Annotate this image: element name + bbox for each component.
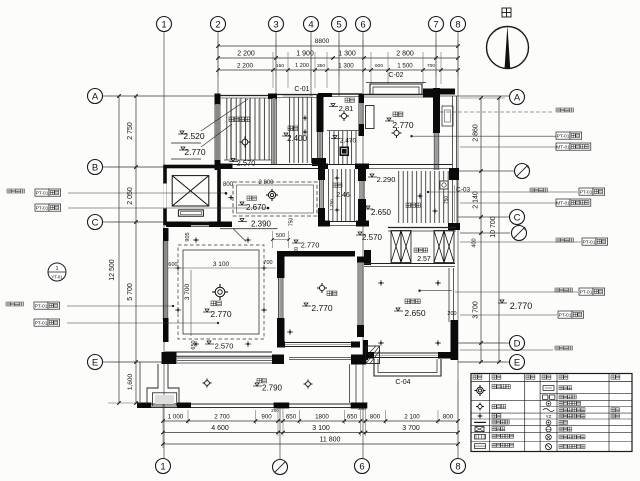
axis bubble 8 top [451,17,466,32]
pier bedroom/master at balcony [351,355,366,365]
svg-text:2.770: 2.770 [210,309,232,319]
grid line axis 5 [338,32,340,96]
svg-text:3 100: 3 100 [312,425,330,432]
wall closet bottom [364,263,455,265]
svg-text:905: 905 [185,232,191,241]
svg-text:8: 8 [455,461,460,472]
pantry appliance black box [340,147,350,157]
balcony left flue box [147,364,179,404]
svg-text:2: 2 [215,19,220,30]
svg-text:600: 600 [375,63,383,69]
label balcony bottom + 2.790 [257,379,261,383]
axis bubble 2 top [211,17,226,32]
elevation 2.650 hallway right [366,206,370,209]
svg-text:2.570: 2.570 [237,159,256,168]
right callout leader row1 [413,135,556,137]
left annotation tiny text row3 [6,302,10,306]
svg-text:1 500: 1 500 [397,63,413,70]
svg-text:PT-01: PT-01 [35,320,48,326]
axis bubble C right [510,210,525,225]
wall bedroom/master divider [357,257,359,325]
left callout leader row3 [67,305,173,307]
entry garden hatch [227,98,269,160]
right annotation dashed leader row0 [440,111,554,113]
svg-text:PT-01: PT-01 [35,303,48,309]
svg-text:2.770: 2.770 [301,241,320,250]
right annotation tiny text AC row8 [460,349,553,351]
svg-text:11 800: 11 800 [320,437,341,444]
legend row3 left symbol wall lamp [477,415,482,417]
right dimension extension lines [460,97,505,99]
wall study top [362,94,433,96]
top dimension extension lines [217,40,219,76]
balcony left slab edge [139,362,141,404]
svg-text:1 000: 1 000 [168,414,184,421]
axis bubble 3 top [269,17,284,32]
svg-text:2.670: 2.670 [246,203,267,212]
hatch area below small balcony [330,131,356,164]
svg-text:1: 1 [160,461,165,472]
left callout leader row4 [67,322,218,324]
legend table header rule [471,381,632,383]
right callout leader row2 [460,146,556,148]
grid line axis C' right [460,232,510,234]
svg-text:1,600: 1,600 [127,373,134,390]
bathroom hatch [399,171,449,223]
elevator door rect [178,210,203,216]
grid line axis B right [458,170,515,172]
top dimension line overall 8800 [218,45,458,47]
plus marks kitchen [302,117,307,119]
svg-text:1 300: 1 300 [338,63,354,70]
elevation 2.770 entry [181,147,185,150]
left callout leader row1 [68,192,226,194]
grid line axis A [103,95,218,97]
grid line axis 3 [275,32,277,100]
balcony C-04 bay frame [374,359,441,376]
svg-text:PT-01: PT-01 [583,239,596,245]
elevation 2.400 kitchen [284,133,288,136]
svg-text:2.400: 2.400 [287,134,308,143]
elevator shaft left door gap white [163,184,166,209]
wall closet top [388,227,456,229]
pier living/bedroom at balcony [272,355,284,365]
wall bedroom top (dining divider) [283,251,355,257]
svg-text:350: 350 [317,63,325,69]
svg-text:A: A [92,91,99,102]
svg-text:800: 800 [443,414,454,421]
svg-text:650: 650 [191,340,197,349]
wall study top-right corner black (axis 7) [433,88,440,133]
svg-text:12 500: 12 500 [109,259,116,281]
svg-text:PT-01: PT-01 [559,312,572,318]
label 2.290 hallway [370,174,374,177]
grid line axis 7 [435,32,437,96]
grid line axis E [103,361,165,363]
grid line axis 1 [163,32,165,458]
right annotation tiny text row3 + box [530,188,534,192]
wall bathroom bottom-right corner black [448,223,460,230]
svg-text:2.790: 2.790 [262,384,283,393]
svg-text:B: B [92,162,98,173]
bedroom ceiling light [319,285,324,290]
svg-text:2 860: 2 860 [473,124,480,142]
legend row6 left symbol AC return [475,435,486,440]
wall below entry-garden (axis B zone) [215,164,233,170]
hallway hatch [329,169,355,221]
svg-text:C-03: C-03 [456,187,470,194]
living room chandelier [215,287,225,297]
wall kitchen/balcony divider black [317,95,324,132]
right callout box MT-01 upper2 [556,143,570,150]
elevation 2.520 entry [180,131,184,134]
right callout box MT-01 row4 [460,202,556,204]
wall bottom living (axis E) [165,351,272,353]
svg-text:2 700: 2 700 [214,414,230,421]
label 2.470 pantry [333,136,337,139]
wall living-room left (axis 1) [163,228,169,241]
svg-text:MT-01: MT-01 [556,200,570,206]
elevation 2.770 dining-left [294,240,298,243]
axis bubble B right slashed [515,164,530,179]
axis bubble A right [510,90,525,105]
grid line axis D right [455,342,510,344]
bedroom balcony sliding door track [289,357,351,359]
svg-text:D: D [514,338,521,349]
grid line axis 2 [217,32,219,170]
axis bubble 4 top [304,17,319,32]
right annotation tiny text row5 + box [556,238,560,242]
wall bathroom top [369,164,452,166]
living entry door leaf diagonal [233,229,246,242]
svg-text:200: 200 [447,311,456,317]
plus marks bathroom [417,195,422,197]
svg-text:YZ: YZ [546,414,552,419]
wall entry-garden left (axis 2) [215,94,221,105]
wall balcony/study divider [359,94,365,103]
label bedroom + 2.770 [327,291,332,296]
svg-text:400: 400 [472,238,478,247]
svg-text:2.770: 2.770 [311,303,333,313]
svg-text:2 200: 2 200 [237,51,255,58]
study ceiling light [394,130,399,135]
svg-text:A: A [514,92,521,103]
right annotation tiny text row6 + box [555,288,559,292]
axis bubble E left [88,355,103,370]
svg-text:2.470: 2.470 [340,138,357,145]
bathroom fan symbol [440,181,448,189]
study leader dot [410,135,412,137]
wall bottom master window [366,352,374,359]
bottom dimension line row 3 [163,443,458,445]
legend right-half rows symbols and texts [543,386,554,391]
bottom dimension extension lines [162,400,164,448]
grid line axis 8 [457,32,459,458]
svg-text:800: 800 [370,414,381,421]
wall kitchen top with window C-01 [277,94,320,96]
right callout box PT-01 row7 [460,314,557,316]
svg-text:PT-01: PT-01 [580,189,593,195]
wall corner block axis3 top [268,94,277,100]
svg-text:3: 3 [273,19,278,30]
svg-text:3 700: 3 700 [184,283,191,300]
corner block axis1/E black [162,352,177,364]
svg-text:2.81: 2.81 [339,104,354,113]
corridor ceiling dashed cove [233,182,317,216]
label entry garden [229,117,234,122]
svg-text:600: 600 [168,262,177,268]
svg-text:2.520: 2.520 [183,131,205,141]
svg-text:1800: 1800 [315,414,329,421]
label bathroom [406,203,410,207]
svg-text:3 100: 3 100 [213,261,230,268]
left callout box PT-01 row2 [35,204,49,211]
wall study right window [433,133,435,170]
closet left wardrobe X-boxes [391,231,401,263]
wall hallway left side [318,169,325,180]
right dimension line inner [480,98,482,362]
elevator shaft outer wall [165,167,219,224]
svg-text:3 700: 3 700 [473,301,480,319]
svg-text:700: 700 [263,260,272,266]
AC platform rects upper right [442,106,453,126]
svg-text:2 800: 2 800 [258,180,274,186]
svg-text:2.570: 2.570 [362,233,383,242]
svg-text:8800: 8800 [315,38,330,45]
svg-text:C-01: C-01 [294,86,309,93]
wall small-balcony top [318,93,332,97]
label closet + 2.57 [414,248,418,252]
balcony bottom piers black [137,403,151,409]
svg-text:5 700: 5 700 [127,283,134,301]
svg-text:PT-01: PT-01 [36,190,49,196]
svg-text:1: 1 [55,266,58,272]
grid line axis 4 [310,32,312,96]
svg-text:2.650: 2.650 [404,308,426,318]
axis bubble B left [88,160,103,175]
right callout box PT-01 upper1 [556,132,570,139]
axis bubble 8 bottom [451,459,466,474]
svg-text:1 200: 1 200 [295,63,309,69]
svg-text:650: 650 [347,414,358,421]
axis bubble 6 top [356,17,371,32]
left dimension line outer 12500 [118,96,120,403]
axis bubble 1 bottom [156,459,171,474]
axis bubble 1 top [157,17,172,32]
svg-text:300: 300 [294,247,300,256]
north arrow compass [487,27,529,69]
wall entry-garden top [220,95,277,97]
label master bedroom + 2.650 [405,299,410,304]
axis bubble 5 top [332,17,347,32]
svg-text:2.46: 2.46 [336,192,350,199]
right dimension line outer 10700 [498,98,500,362]
plus mark right of elevator [228,197,233,199]
wall bathroom right window C-03 [452,180,454,226]
axis bubble E right [510,355,525,370]
svg-text:150: 150 [276,63,284,69]
axis bubble 4 bottom slashed [273,460,288,475]
svg-text:PT-01: PT-01 [580,289,593,295]
wall hallway top [318,164,328,170]
svg-text:650: 650 [286,414,297,421]
svg-text:E: E [514,357,520,368]
svg-text:2 140: 2 140 [473,191,480,209]
wall between entry and kitchen [271,98,273,164]
svg-text:5: 5 [336,19,341,30]
axis bubble 6 bottom [355,459,370,474]
corridor ceiling light [268,191,275,198]
svg-text:750: 750 [289,218,295,227]
svg-text:700: 700 [427,63,435,69]
grid line axis C right [458,216,510,218]
svg-text:2.770: 2.770 [392,120,414,130]
elevator car box with X [172,176,209,206]
label living room + 2.770 [211,301,216,306]
master SW corner block diagonal hatched [366,346,380,364]
svg-text:6: 6 [360,19,365,30]
legend row4 left symbol cove tube [474,421,486,423]
legend row2 left symbol ceiling light [478,404,482,408]
svg-text:2 100: 2 100 [404,414,420,421]
svg-text:YT-01: YT-01 [51,275,63,280]
svg-text:10 700: 10 700 [490,216,497,238]
svg-text:2 050: 2 050 [127,187,134,205]
grid line axis B [103,166,168,168]
legend table right-half row rules [540,393,632,395]
svg-text:900: 900 [261,414,272,421]
axis bubble C left [88,215,103,230]
wall corridor/dining right piece [364,250,371,265]
legend row7 left symbol AC supply [475,444,486,449]
master bedroom leader dot [418,290,420,292]
grid line axis 4' bottom [279,405,281,459]
closet right wardrobe X-boxes [434,231,444,263]
svg-text:MT-01: MT-01 [556,144,570,150]
elevation 2.570 entry bottom [231,159,235,162]
legend row5 left symbol exhaust [475,427,484,432]
svg-text:500: 500 [276,233,285,239]
legend table left-half row rules [471,399,540,401]
dim 500 between living and bedroom [272,231,274,248]
wall bathroom top-right corner black [449,168,459,180]
living room ceiling dashed cove [178,245,264,339]
label small balcony + 2.810 [345,98,349,102]
right annotation tiny text row0 [556,108,560,112]
label study + 2.770 [393,112,398,117]
svg-text:C-02: C-02 [388,72,403,79]
svg-text:PT-01: PT-01 [557,133,570,139]
left dimension extension lines [108,95,164,97]
bottom dimension line row 2 [163,432,458,434]
legend row1 left symbol chandelier [477,387,484,394]
right elevation 2.770 balcony side [500,300,504,303]
top dimension line row 2 [218,69,458,71]
corridor soffit edge line [220,228,278,230]
svg-text:750: 750 [444,196,450,205]
left callout leader row2 [68,207,268,209]
axis bubble A left [88,89,103,104]
label kitchen [288,126,293,131]
legend table vertical rules [489,374,491,452]
svg-text:2.770: 2.770 [184,147,206,157]
living balcony sliding door track [177,357,272,359]
wall outer right upper (axis 8) [452,96,454,170]
left callout box PT-01 row3 [34,302,48,309]
small balcony ceiling light [341,113,346,118]
axis bubble D right [510,336,525,351]
wall below elevator / living top [166,222,191,228]
entry leader arrows [201,99,248,131]
svg-text:2 200: 2 200 [237,63,254,70]
svg-text:3 700: 3 700 [402,425,420,432]
wall living/bedroom divider [277,251,285,278]
north arrow label Bei [502,8,511,17]
svg-text:800: 800 [223,182,234,188]
svg-text:E: E [92,357,98,368]
top dimension line row 1 [218,57,458,59]
svg-text:C: C [514,212,521,223]
kitchen hatch [290,97,312,163]
left dimension line inner [135,96,137,403]
elevation 2.390 corridor [240,219,244,222]
left callout box PT-01 row4 [34,319,48,326]
svg-text:C-04: C-04 [395,379,410,386]
bottom dimension line row 1 [163,420,458,422]
plus marks master bedroom [378,282,384,284]
svg-text:2.290: 2.290 [377,175,396,184]
grid line axis C left [103,221,164,223]
grid line axis 6 [362,32,364,458]
left annotation tiny text row1 [7,189,11,193]
elevation 2.570 living bottom [207,341,211,344]
wall hallway right side [358,169,366,181]
left callout box PT-01 row1 [35,189,49,196]
svg-text:4: 4 [308,19,313,30]
svg-text:PT-01: PT-01 [36,205,49,211]
wall master right (axis 8) [448,268,450,322]
svg-text:2.770: 2.770 [510,301,533,311]
entry garden hatch thick bars [230,99,232,159]
svg-text:2.57: 2.57 [417,256,431,263]
balcony bottom slab edge [137,403,367,405]
wall master west lower black [363,340,368,360]
svg-text:6: 6 [359,461,364,472]
legend table frame [471,374,632,452]
study door frame rect [366,106,375,129]
svg-text:8: 8 [455,19,460,30]
axis bubble C' right slashed [512,226,527,241]
plus marks hallway [335,177,340,179]
legend header texts [473,375,477,379]
axis bubble 7 top [429,17,444,32]
wall bottom bedroom window [284,342,352,344]
wall hallway bottom [318,221,330,227]
svg-text:2.390: 2.390 [251,220,272,229]
label living-hall + 2.670 [247,196,251,200]
bay window C-02 frame [370,84,422,95]
svg-text:2.650: 2.650 [371,208,392,217]
svg-text:C: C [92,217,99,228]
svg-text:1 250: 1 250 [329,199,334,211]
elevation 2.570 dining [358,232,362,235]
svg-text:1 300: 1 300 [338,51,356,58]
svg-text:7: 7 [433,19,438,30]
detail callout bubble 1/YT-01 [48,263,66,281]
svg-text:2.570: 2.570 [215,342,234,351]
entry garden ceiling light [242,139,248,145]
label hallway 2.460 [333,183,337,187]
